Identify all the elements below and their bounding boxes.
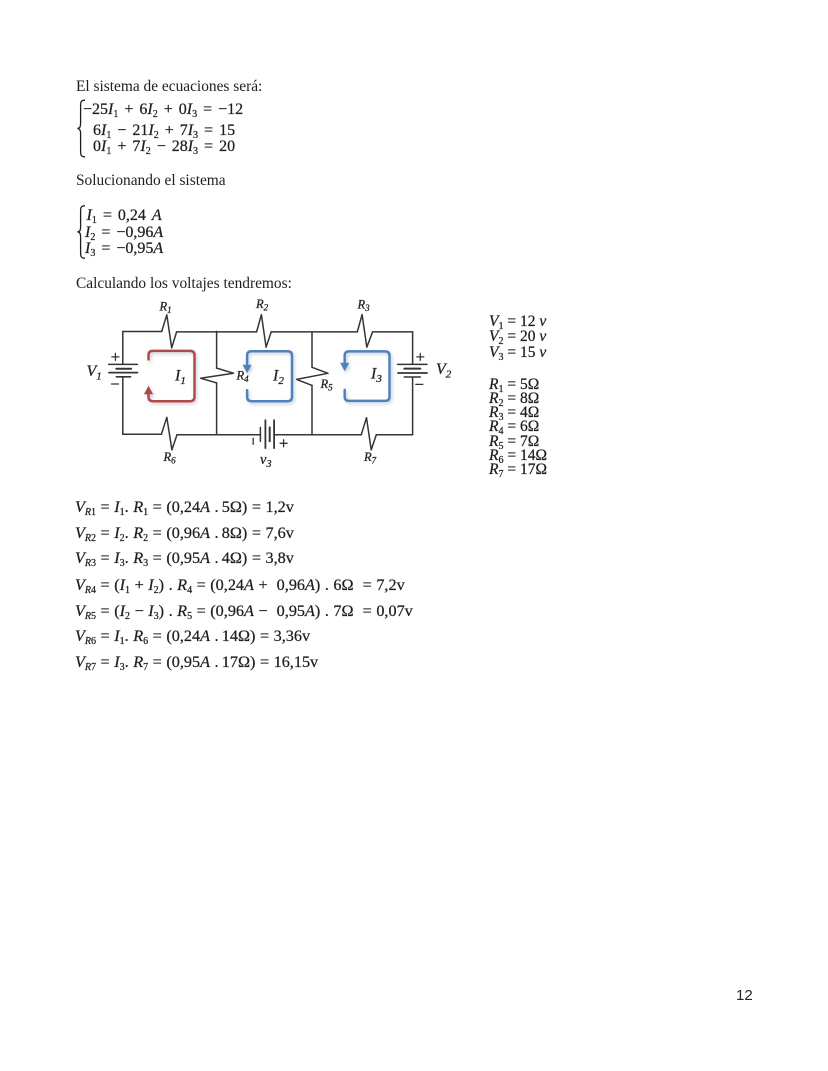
heading line 3 [76, 275, 292, 293]
svg-text:R7: R7 [363, 450, 377, 466]
heading line 1 [76, 78, 262, 96]
equation system 1 brace [74, 97, 90, 161]
wire left-upper [122, 332, 124, 365]
wire middle-1-upper [216, 332, 218, 369]
svg-text:I3: I3 [370, 366, 382, 386]
mesh current loop I3 [340, 351, 389, 401]
wire right-lower [412, 377, 414, 434]
mesh current loop I1 [144, 351, 195, 401]
resistor R4 [201, 368, 234, 383]
svg-text:R1: R1 [159, 300, 172, 316]
right column values [489, 313, 546, 331]
wire top-right [373, 331, 413, 333]
battery V1 [109, 353, 138, 384]
battery V3 [253, 420, 287, 448]
svg-text:R3: R3 [357, 298, 371, 314]
svg-text:R6: R6 [163, 450, 177, 466]
heading line 2 [76, 172, 226, 190]
result equations [75, 498, 294, 517]
wire bottom-right [376, 434, 412, 436]
resistor R5 [297, 367, 328, 385]
circuit schematic [70, 290, 480, 480]
resistor R1 [162, 315, 177, 348]
wire middle-2-upper [311, 332, 313, 367]
battery V2 [398, 353, 427, 384]
equation system 2 [87, 207, 162, 225]
svg-text:R5: R5 [320, 377, 334, 393]
svg-text:V1: V1 [87, 363, 102, 383]
wire top-middle-2 [271, 331, 357, 333]
page number [736, 987, 753, 1004]
wire top-middle-1 [177, 331, 257, 333]
wire middle-2-lower [311, 385, 313, 434]
wire right-upper [412, 332, 414, 364]
equation system 1 [83, 101, 243, 119]
mesh current loop I2 [243, 351, 293, 401]
wire bottom-middle-1 [177, 434, 260, 436]
svg-text:R2: R2 [255, 297, 269, 313]
resistor R3 [357, 315, 372, 348]
svg-text:I2: I2 [272, 368, 284, 388]
svg-text:I1: I1 [174, 368, 186, 388]
equation system 2 brace [74, 203, 90, 263]
wire top-left [123, 331, 162, 333]
wire left-lower [122, 377, 124, 434]
wire bottom-middle-2 [274, 434, 361, 436]
svg-text:V2: V2 [436, 361, 452, 381]
resistor R2 [257, 315, 272, 348]
resistor R7 [361, 418, 376, 450]
resistor R6 [161, 417, 177, 450]
wire bottom-left [123, 433, 162, 435]
wire middle-1-lower [216, 383, 218, 434]
svg-text:v3: v3 [260, 452, 271, 470]
